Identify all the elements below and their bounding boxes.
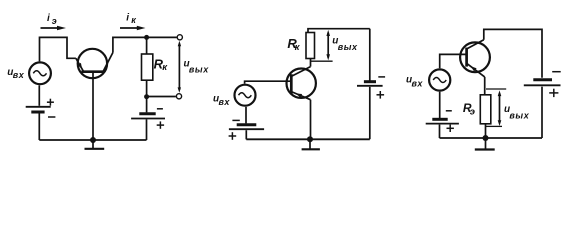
- battery GB3 (input loop): [229, 107, 264, 140]
- node: lower output junction: [144, 94, 149, 99]
- node: collector junction: [144, 35, 149, 40]
- label minus GB5: [446, 110, 452, 112]
- wire: lower reference tick for u_vyx circuit 3: [486, 125, 502, 127]
- svg-text:i: i: [47, 13, 50, 24]
- label u_vyx circuit 2: [332, 36, 358, 53]
- svg-text:i: i: [126, 12, 129, 23]
- AC source G2: [235, 85, 256, 106]
- label u_vx (input voltage): [213, 94, 230, 107]
- label plus GB4: [377, 91, 385, 99]
- svg-text:к: к: [295, 42, 301, 53]
- wire: base to bottom rail: [92, 72, 94, 140]
- label u_vx (input voltage): [406, 75, 423, 89]
- resistor Re: [480, 95, 491, 124]
- label plus GB5: [447, 125, 454, 132]
- wire: collector to resistor: [310, 59, 312, 67]
- wire: source top to base: [440, 54, 467, 68]
- wire: junction to resistor: [146, 37, 148, 54]
- wire: lower reference tick for u_vyx circuit 2: [311, 60, 333, 62]
- wire: source top to emitter: [40, 37, 76, 61]
- label minus GB1: [48, 116, 55, 118]
- label minus GB4: [378, 76, 385, 78]
- wire: bottom rail circuit 3: [440, 137, 543, 139]
- arrow u_vyx circuit 3: [498, 90, 502, 126]
- node: emitter-rail junction: [307, 136, 313, 142]
- terminal: output top: [177, 35, 182, 40]
- transistor Q1 (pnp, common base): [76, 49, 113, 78]
- wire: collector to top rail and battery: [484, 29, 542, 77]
- ground circuit 1: [85, 140, 105, 149]
- arrow i_e: [41, 26, 67, 31]
- node: emitter-rail junction: [483, 135, 489, 141]
- label Re: [463, 101, 475, 118]
- label plus GB2: [157, 121, 164, 128]
- transistor Q2 (pnp, common emitter): [287, 67, 316, 100]
- AC source G3: [429, 69, 450, 90]
- label minus GB6: [552, 71, 561, 73]
- arrow u_vyx circuit 2: [326, 30, 330, 61]
- svg-text:вых: вых: [338, 42, 358, 52]
- transistor Q3 (pnp, emitter follower): [460, 40, 490, 77]
- arrow u_vyx (output voltage, double head): [178, 41, 182, 93]
- svg-text:вх: вх: [412, 78, 424, 88]
- battery GB5 (input loop): [426, 92, 459, 138]
- label minus GB2: [157, 108, 163, 110]
- battery GB4 (collector supply): [357, 29, 383, 140]
- battery GB2 (collector bias): [131, 97, 165, 140]
- ground circuit 3: [475, 138, 495, 150]
- wire: emitter down to resistor: [484, 77, 486, 95]
- battery GB6 (collector supply): [524, 80, 561, 138]
- label i_e (emitter current): [47, 13, 57, 26]
- arrow i_k: [120, 26, 146, 31]
- label plus GB1: [47, 99, 54, 106]
- svg-text:вых: вых: [189, 64, 209, 74]
- label u_vyx (output voltage): [184, 59, 210, 75]
- ground circuit 2: [302, 139, 320, 149]
- wire: resistor bottom to rail: [485, 124, 487, 138]
- label minus GB3: [232, 119, 239, 121]
- svg-text:вых: вых: [509, 110, 529, 120]
- label u_vx (input voltage): [7, 67, 24, 80]
- wire: bottom rail circuit 2: [246, 138, 369, 140]
- svg-text:э: э: [52, 16, 57, 26]
- wire: bottom rail circuit 1: [39, 139, 146, 141]
- wire: resistor bottom to lower node: [146, 80, 148, 97]
- wire: source top to base: [245, 81, 292, 83]
- label plus GB3: [229, 132, 237, 140]
- svg-text:к: к: [131, 15, 136, 25]
- battery GB1 (emitter bias): [26, 85, 51, 140]
- node: base-rail junction: [90, 137, 96, 143]
- label i_k (collector current): [126, 12, 136, 25]
- resistor Rk2: [306, 33, 315, 59]
- label Rk1: [154, 56, 169, 72]
- wire: upper reference tick for u_vyx circuit 3: [486, 88, 506, 90]
- wire: resistor top rail to battery: [308, 29, 370, 33]
- wire: collector up to top rail: [113, 37, 177, 52]
- svg-text:к: к: [162, 62, 168, 73]
- wire: lower node to output terminal: [147, 96, 176, 98]
- svg-text:вх: вх: [219, 97, 231, 107]
- AC source G1: [29, 62, 51, 84]
- svg-text:э: э: [470, 107, 475, 118]
- label plus GB6: [549, 89, 558, 97]
- svg-text:вх: вх: [13, 70, 25, 80]
- terminal: output bottom: [176, 94, 181, 99]
- label u_vyx circuit 3: [504, 104, 530, 120]
- resistor Rk1: [142, 54, 153, 80]
- label Rk2: [287, 36, 300, 53]
- wire: emitter to bottom rail: [310, 100, 312, 140]
